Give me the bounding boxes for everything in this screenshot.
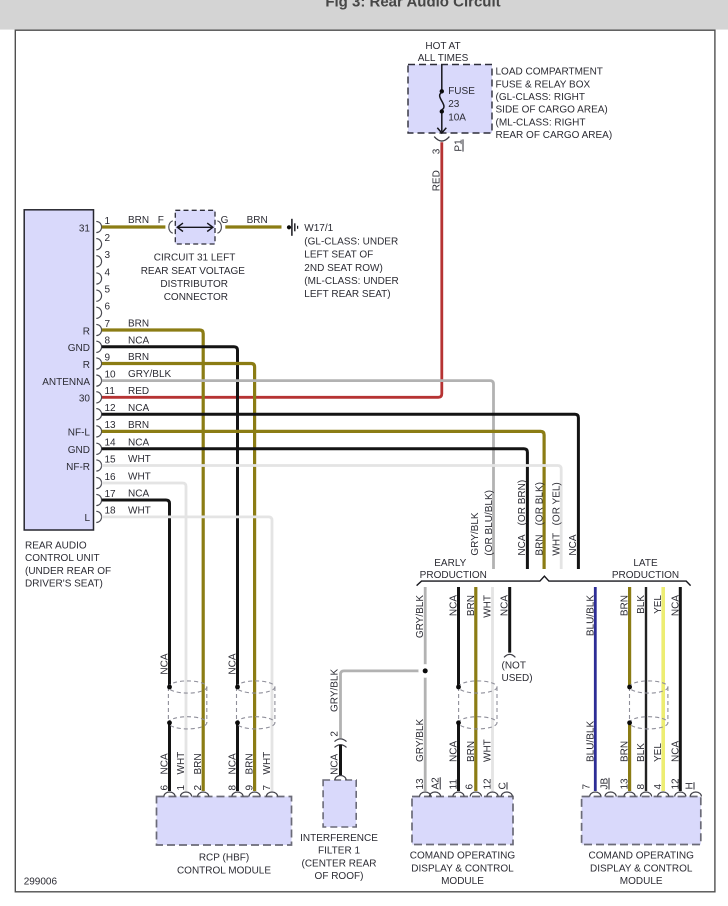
svg-text:NCA: NCA [160,653,171,674]
svg-text:OF ROOF): OF ROOF) [315,871,364,882]
svg-text:REAR OF CARGO AREA): REAR OF CARGO AREA) [496,130,613,141]
svg-text:6: 6 [160,785,171,791]
svg-text:NCA: NCA [228,653,239,674]
svg-text:15: 15 [105,454,117,465]
svg-text:BLK: BLK [636,743,647,762]
svg-text:13: 13 [415,778,426,790]
svg-text:(UNDER REAR OF: (UNDER REAR OF [25,566,111,577]
svg-text:USED): USED) [502,673,533,684]
svg-text:13: 13 [105,420,117,431]
svg-text:(OR YEL): (OR YEL) [551,482,562,525]
svg-text:LATE: LATE [633,558,658,569]
svg-text:9: 9 [245,785,256,791]
svg-text:NCA: NCA [568,534,579,555]
svg-text:HOT AT: HOT AT [425,41,460,52]
svg-text:7: 7 [105,319,111,330]
svg-text:FILTER 1: FILTER 1 [318,846,360,857]
svg-text:YEL: YEL [653,595,664,614]
svg-text:(ML-CLASS: RIGHT: (ML-CLASS: RIGHT [496,117,586,128]
svg-text:NCA: NCA [128,437,149,448]
svg-text:1: 1 [105,216,111,227]
svg-text:REAR SEAT VOLTAGE: REAR SEAT VOLTAGE [141,266,246,277]
svg-text:BRN: BRN [620,741,631,762]
svg-text:MODULE: MODULE [441,876,484,887]
svg-text:(CENTER REAR: (CENTER REAR [301,858,376,869]
svg-text:G: G [221,215,229,226]
svg-text:10A: 10A [448,112,466,123]
svg-text:12: 12 [105,403,117,414]
svg-text:7: 7 [582,784,593,790]
svg-text:299006: 299006 [24,877,58,888]
svg-text:BLU/BLK: BLU/BLK [585,721,596,762]
svg-text:GRY/BLK: GRY/BLK [470,512,481,555]
svg-text:GND: GND [68,343,90,354]
svg-text:6: 6 [105,302,111,313]
svg-text:RED: RED [128,386,149,397]
svg-text:12: 12 [670,778,681,790]
svg-text:NF-R: NF-R [66,462,90,473]
svg-text:COMAND OPERATING: COMAND OPERATING [589,851,695,862]
svg-text:(NOT: (NOT [502,660,526,671]
svg-text:INTERFERENCE: INTERFERENCE [300,833,378,844]
svg-text:NCA: NCA [160,753,171,774]
svg-text:8: 8 [105,336,111,347]
svg-text:R: R [83,326,90,337]
svg-text:(OR BLK): (OR BLK) [534,482,545,525]
svg-text:JB: JB [600,778,611,790]
svg-text:NF-L: NF-L [68,428,91,439]
svg-text:8: 8 [228,785,239,791]
svg-text:5: 5 [105,284,111,295]
svg-text:23: 23 [448,99,460,110]
svg-text:YEL: YEL [653,743,664,762]
svg-text:BRN: BRN [534,534,545,555]
svg-text:31: 31 [79,223,91,234]
svg-text:Fig 3: Rear Audio Circuit: Fig 3: Rear Audio Circuit [325,0,500,11]
svg-text:BRN: BRN [245,753,256,774]
svg-text:NCA: NCA [670,595,681,616]
svg-text:BRN: BRN [620,595,631,616]
svg-text:RED: RED [432,170,443,191]
svg-text:BRN: BRN [128,215,149,226]
svg-text:PRODUCTION: PRODUCTION [612,570,679,581]
svg-text:F: F [158,215,164,226]
svg-text:2: 2 [193,785,204,791]
svg-text:2: 2 [105,233,111,244]
svg-text:WHT: WHT [128,506,151,517]
svg-text:7: 7 [262,785,273,791]
svg-text:NCA: NCA [449,595,460,616]
svg-text:MODULE: MODULE [620,876,663,887]
svg-text:REAR AUDIO: REAR AUDIO [25,540,87,551]
svg-text:(ML-CLASS: UNDER: (ML-CLASS: UNDER [304,276,398,287]
svg-text:COMAND OPERATING: COMAND OPERATING [410,851,516,862]
svg-text:BRN: BRN [466,741,477,762]
svg-text:6: 6 [464,784,475,790]
svg-text:(GL-CLASS: UNDER: (GL-CLASS: UNDER [304,236,398,247]
svg-text:2: 2 [329,731,340,737]
svg-text:BRN: BRN [466,595,477,616]
svg-text:ALL TIMES: ALL TIMES [418,53,469,64]
svg-text:RCP (HBF): RCP (HBF) [199,853,249,864]
svg-text:WHT: WHT [128,472,151,483]
svg-text:(OR BLU/BLK): (OR BLU/BLK) [484,490,495,556]
svg-text:BRN: BRN [247,215,268,226]
svg-text:BRN: BRN [193,753,204,774]
svg-text:BLK: BLK [636,595,647,614]
svg-text:LOAD COMPARTMENT: LOAD COMPARTMENT [496,67,603,78]
svg-text:(OR BRN): (OR BRN) [517,480,528,526]
svg-text:LEFT SEAT OF: LEFT SEAT OF [304,250,373,261]
svg-text:NCA: NCA [517,534,528,555]
svg-text:WHT: WHT [128,454,151,465]
svg-text:DRIVER'S SEAT): DRIVER'S SEAT) [25,579,103,590]
svg-text:R: R [83,360,90,371]
svg-text:BRN: BRN [128,420,149,431]
svg-text:L: L [84,513,90,524]
svg-text:ANTENNA: ANTENNA [42,377,90,388]
svg-text:FUSE: FUSE [448,86,475,97]
svg-text:SIDE OF CARGO AREA): SIDE OF CARGO AREA) [496,105,608,116]
svg-text:CONTROL MODULE: CONTROL MODULE [177,865,271,876]
svg-text:NCA: NCA [329,753,340,774]
svg-text:DISTRIBUTOR: DISTRIBUTOR [160,279,228,290]
svg-text:WHT: WHT [176,752,187,775]
svg-text:H: H [685,782,696,789]
svg-text:(GL-CLASS: RIGHT: (GL-CLASS: RIGHT [496,92,585,103]
svg-text:3: 3 [105,250,111,261]
svg-text:16: 16 [105,472,117,483]
svg-text:CIRCUIT 31 LEFT: CIRCUIT 31 LEFT [154,253,236,264]
svg-text:NCA: NCA [500,595,511,616]
svg-text:4: 4 [105,267,111,278]
svg-text:14: 14 [105,438,117,449]
svg-text:BRN: BRN [128,319,149,330]
svg-text:BRN: BRN [128,352,149,363]
svg-text:NCA: NCA [128,335,149,346]
svg-text:GRY/BLK: GRY/BLK [128,369,171,380]
svg-text:BLU/BLK: BLU/BLK [585,595,596,636]
svg-text:WHT: WHT [551,533,562,556]
svg-text:C: C [498,782,509,789]
svg-text:1: 1 [176,785,187,791]
svg-text:EARLY: EARLY [434,558,466,569]
svg-text:2ND SEAT ROW): 2ND SEAT ROW) [304,263,383,274]
svg-text:WHT: WHT [262,752,273,775]
svg-text:12: 12 [483,778,494,790]
svg-text:P1: P1 [454,139,465,152]
svg-text:W17/1: W17/1 [304,223,333,234]
svg-text:11: 11 [105,386,116,397]
svg-text:11: 11 [449,779,460,790]
svg-text:CONTROL UNIT: CONTROL UNIT [25,553,100,564]
svg-text:17: 17 [105,489,117,500]
svg-text:9: 9 [105,352,111,363]
svg-text:LEFT REAR SEAT): LEFT REAR SEAT) [304,289,390,300]
svg-text:GRY/BLK: GRY/BLK [329,669,340,712]
svg-text:GND: GND [68,445,90,456]
svg-text:CONNECTOR: CONNECTOR [164,292,228,303]
svg-text:NCA: NCA [449,741,460,762]
svg-text:NCA: NCA [228,753,239,774]
svg-text:18: 18 [105,506,117,517]
svg-text:8: 8 [636,784,647,790]
svg-text:DISPLAY & CONTROL: DISPLAY & CONTROL [411,863,514,874]
svg-text:NCA: NCA [670,741,681,762]
svg-text:WHT: WHT [483,739,494,762]
svg-text:30: 30 [79,394,91,405]
svg-text:WHT: WHT [483,595,494,618]
svg-text:DISPLAY & CONTROL: DISPLAY & CONTROL [590,863,693,874]
svg-text:A2: A2 [431,777,442,790]
svg-text:GRY/BLK: GRY/BLK [415,719,426,762]
svg-text:GRY/BLK: GRY/BLK [415,595,426,638]
svg-text:NCA: NCA [128,489,149,500]
svg-text:PRODUCTION: PRODUCTION [420,570,487,581]
svg-text:4: 4 [653,784,664,790]
svg-text:FUSE & RELAY BOX: FUSE & RELAY BOX [496,79,591,90]
svg-text:13: 13 [620,778,631,790]
svg-text:NCA: NCA [128,403,149,414]
svg-text:10: 10 [105,369,117,380]
